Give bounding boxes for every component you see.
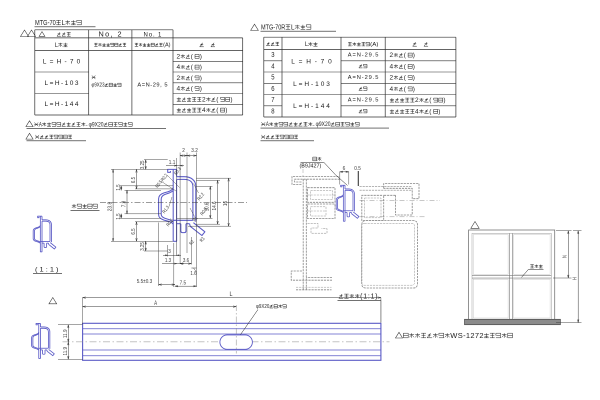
svg-text:(: ( (216, 107, 219, 114)
svg-text:(: ( (404, 86, 407, 93)
svg-text:(1:1): (1:1) (360, 293, 378, 300)
window triangle mark (471, 222, 479, 229)
svg-text:): ) (200, 53, 202, 60)
section dimensions left (111, 168, 168, 170)
svg-text:3.6: 3.6 (183, 258, 189, 264)
svg-text:3.2: 3.2 (191, 148, 198, 154)
svg-text:φ9X23: φ9X23 (92, 83, 105, 89)
enlarged section view of rail profile (blue) (159, 169, 205, 241)
jamb middle members (308, 188, 336, 203)
long bar side view (blue) (83, 323, 381, 360)
right notes (261, 122, 265, 126)
svg-text:R1.3: R1.3 (161, 205, 171, 215)
svg-text:7.5: 7.5 (180, 281, 187, 287)
svg-text:3.25: 3.25 (140, 242, 146, 251)
section dimensions bottom (167, 245, 169, 257)
svg-text:11.9: 11.9 (63, 347, 69, 356)
svg-text:4: 4 (390, 86, 394, 93)
svg-text:No. 1: No. 1 (144, 32, 163, 38)
product label (313, 157, 317, 161)
svg-text:(: ( (429, 108, 432, 115)
svg-text:L: L (55, 42, 58, 49)
triangle near L dim (49, 298, 57, 304)
svg-text:(: ( (429, 97, 432, 104)
svg-text:A: A (39, 121, 43, 128)
note: same as WS-1272 (395, 332, 402, 338)
svg-text:1.3: 1.3 (165, 258, 171, 264)
svg-text:L: L (291, 22, 295, 31)
center line of section (100, 201, 247, 203)
svg-text:L=H-70: L=H-70 (291, 58, 332, 65)
svg-text:R3: R3 (199, 236, 207, 244)
svg-text:): ) (413, 75, 415, 82)
svg-text:L=H-103: L=H-103 (293, 81, 330, 88)
svg-text:H: H (573, 277, 579, 280)
svg-text:14.6: 14.6 (212, 201, 218, 210)
svg-text:): ) (413, 63, 415, 70)
svg-text:23.8: 23.8 (108, 202, 114, 212)
svg-text:4: 4 (177, 64, 181, 71)
svg-text:6.5: 6.5 (131, 177, 137, 183)
nakasan label (530, 264, 534, 266)
svg-text:A: A (266, 121, 270, 128)
product in assembly (blue) (336, 185, 359, 221)
svg-text:(A): (A) (370, 42, 378, 48)
svg-text:8: 8 (271, 108, 274, 115)
L dim (82, 298, 84, 324)
right sash profile (384, 184, 419, 199)
svg-text:6: 6 (271, 86, 274, 93)
svg-text:L=H-103: L=H-103 (45, 80, 79, 87)
bar height dims 11.9/11.9 (58, 324, 83, 326)
svg-text:(: ( (216, 96, 219, 103)
svg-text:4: 4 (271, 63, 274, 70)
svg-text:2: 2 (415, 97, 419, 104)
svg-text:1.5: 1.5 (116, 184, 122, 190)
svg-text:A: A (154, 300, 158, 307)
svg-text:4: 4 (415, 108, 419, 115)
svg-text:A=N-29.5: A=N-29.5 (348, 53, 379, 59)
svg-text:MTG-70: MTG-70 (35, 18, 56, 27)
svg-text:1.6: 1.6 (190, 271, 196, 277)
svg-text:φ9X20: φ9X20 (316, 121, 331, 128)
svg-text:L: L (230, 291, 233, 298)
svg-text:): ) (438, 108, 440, 115)
svg-text:2: 2 (202, 96, 206, 103)
svg-text:R2.2: R2.2 (196, 192, 206, 202)
svg-text:L=H-70: L=H-70 (43, 59, 81, 66)
svg-text:): ) (443, 97, 445, 104)
svg-text:A=N-29, 5: A=N-29, 5 (137, 82, 167, 88)
svg-text:MTG-70R: MTG-70R (261, 22, 285, 31)
svg-text:(: ( (191, 64, 194, 71)
svg-text:2: 2 (182, 148, 185, 154)
svg-text:2: 2 (390, 52, 394, 59)
svg-text:φ9X20: φ9X20 (256, 304, 269, 310)
svg-text:2: 2 (177, 75, 181, 82)
svg-text:1.5: 1.5 (116, 213, 122, 219)
svg-text:A=N-29.5: A=N-29.5 (348, 98, 379, 104)
svg-text:(: ( (404, 75, 407, 82)
svg-text:( 1 : 1 ): ( 1 : 1 ) (35, 266, 59, 273)
svg-text:16: 16 (223, 201, 229, 206)
svg-text:): ) (200, 86, 202, 93)
section dimensions top (176, 158, 178, 256)
svg-text:7: 7 (271, 97, 274, 104)
svg-text:): ) (413, 52, 415, 59)
svg-text:): ) (230, 96, 232, 103)
svg-text:): ) (413, 86, 415, 93)
svg-text:N: N (563, 255, 569, 258)
upper rail lines to sash (360, 185, 413, 187)
orientation note (73, 204, 75, 208)
svg-text:L=H-144: L=H-144 (45, 101, 79, 108)
section dimensions right (196, 185, 212, 187)
svg-text:6: 6 (343, 166, 346, 172)
svg-text:4: 4 (390, 63, 394, 70)
svg-text:3: 3 (168, 249, 171, 255)
assembly center lines (360, 200, 441, 202)
left notes (26, 121, 33, 127)
dim 6 and 0.5 (339, 172, 341, 185)
svg-text:R2: R2 (188, 239, 196, 247)
svg-text:(A): (A) (163, 42, 171, 48)
svg-text:L: L (305, 41, 308, 48)
svg-text:(B9J427): (B9J427) (300, 163, 322, 169)
svg-text:5: 5 (271, 75, 274, 82)
svg-text:2: 2 (390, 75, 394, 82)
svg-text:L: L (62, 18, 66, 27)
svg-text:3: 3 (271, 52, 274, 59)
svg-text:4: 4 (202, 107, 206, 114)
svg-text:5.5±0.3: 5.5±0.3 (137, 279, 153, 285)
svg-text:A=N-29.5: A=N-29.5 (348, 75, 379, 81)
oblong hole (220, 335, 253, 349)
svg-text:): ) (225, 107, 227, 114)
svg-text:3.25: 3.25 (140, 160, 146, 169)
window sill (465, 319, 561, 324)
svg-text:WS-1272: WS-1272 (450, 331, 483, 340)
svg-text:6.5: 6.5 (131, 228, 137, 234)
right table: MTG-70R L-dimension table (251, 24, 259, 30)
assembly caption (339, 294, 342, 298)
radius callouts (173, 166, 183, 176)
window elevation (469, 230, 555, 323)
svg-text:(: ( (191, 86, 194, 93)
1:1 small profile (33, 216, 56, 252)
bar center line (63, 341, 390, 343)
svg-text:7.8: 7.8 (122, 201, 128, 207)
svg-text:): ) (200, 64, 202, 71)
left jamb profile (292, 176, 340, 184)
svg-text:φ9X20: φ9X20 (89, 121, 104, 128)
svg-text:No, 2: No, 2 (99, 30, 122, 39)
svg-text:0.5: 0.5 (354, 166, 361, 172)
svg-text:R0.3: R0.3 (173, 166, 183, 176)
svg-text:(: ( (404, 52, 407, 59)
svg-text:4: 4 (177, 86, 181, 93)
svg-text:11.9: 11.9 (63, 329, 69, 338)
bar end profile (blue) (32, 323, 55, 358)
window dims N H (556, 230, 572, 232)
svg-text:(: ( (404, 63, 407, 70)
svg-text:2: 2 (177, 53, 181, 60)
svg-text:(: ( (191, 53, 194, 60)
svg-text:): ) (200, 75, 202, 82)
svg-text:(: ( (191, 75, 194, 82)
A dim (83, 306, 237, 308)
svg-text:L=H-144: L=H-144 (293, 103, 330, 110)
